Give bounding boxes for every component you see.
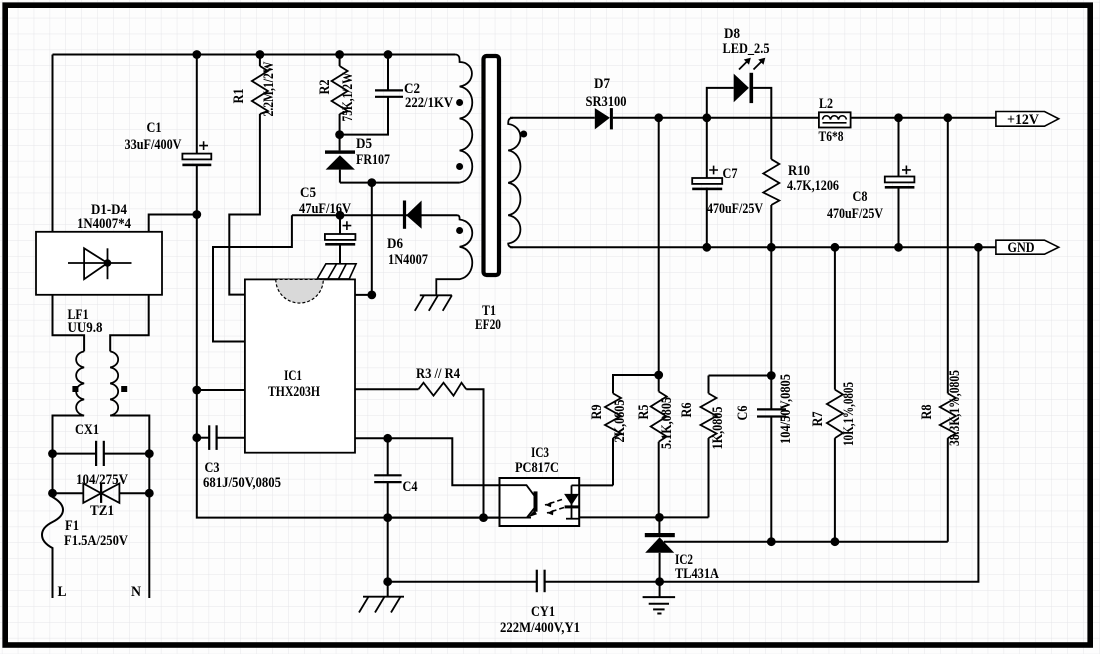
svg-text:UU9.8: UU9.8 xyxy=(68,320,103,336)
svg-text:LED_2.5: LED_2.5 xyxy=(723,41,770,57)
svg-text:R2: R2 xyxy=(317,80,333,95)
svg-text:4.7K,1206: 4.7K,1206 xyxy=(787,178,839,194)
svg-text:PC817C: PC817C xyxy=(515,460,559,476)
svg-text:CX1: CX1 xyxy=(75,422,99,438)
svg-text:1N4007*4: 1N4007*4 xyxy=(77,216,131,232)
svg-text:2.2M,1/2W: 2.2M,1/2W xyxy=(261,61,277,116)
svg-text:1N4007: 1N4007 xyxy=(388,252,428,268)
svg-text:33uF/400V: 33uF/400V xyxy=(125,137,182,153)
svg-text:FR107: FR107 xyxy=(356,152,390,168)
svg-text:+12V: +12V xyxy=(1007,112,1040,128)
svg-text:C5: C5 xyxy=(300,185,316,201)
svg-text:THX203H: THX203H xyxy=(268,384,321,400)
svg-text:SR3100: SR3100 xyxy=(586,94,627,110)
svg-text:GND: GND xyxy=(1008,240,1035,256)
svg-text:470uF/25V: 470uF/25V xyxy=(707,201,763,217)
svg-text:1K,0805: 1K,0805 xyxy=(710,407,726,450)
svg-text:C6: C6 xyxy=(735,406,751,421)
svg-text:R10: R10 xyxy=(788,163,810,179)
svg-text:F1: F1 xyxy=(65,518,79,534)
svg-text:C3: C3 xyxy=(205,460,220,476)
svg-text:D6: D6 xyxy=(387,236,403,252)
svg-text:R5: R5 xyxy=(636,405,652,420)
svg-text:D7: D7 xyxy=(594,76,610,92)
svg-text:F1.5A/250V: F1.5A/250V xyxy=(64,533,128,549)
svg-text:R8: R8 xyxy=(919,405,935,420)
svg-text:104/50V,0805: 104/50V,0805 xyxy=(778,374,794,444)
svg-text:47uF/16V: 47uF/16V xyxy=(299,201,351,217)
svg-text:IC3: IC3 xyxy=(531,445,549,461)
svg-text:CY1: CY1 xyxy=(531,604,555,620)
svg-text:75K,1/2W: 75K,1/2W xyxy=(340,72,356,121)
svg-text:R6: R6 xyxy=(679,403,695,418)
svg-text:38.3K,1%,0805: 38.3K,1%,0805 xyxy=(947,370,963,446)
svg-text:C1: C1 xyxy=(147,120,162,136)
svg-text:104/275V: 104/275V xyxy=(76,472,128,488)
svg-text:EF20: EF20 xyxy=(475,317,501,333)
svg-text:C7: C7 xyxy=(723,166,738,182)
svg-text:R9: R9 xyxy=(589,405,605,420)
svg-text:TL431A: TL431A xyxy=(675,566,719,582)
svg-text:TZ1: TZ1 xyxy=(90,503,114,519)
svg-text:470uF/25V: 470uF/25V xyxy=(827,206,883,222)
svg-text:R7: R7 xyxy=(810,412,826,427)
svg-text:681J/50V,0805: 681J/50V,0805 xyxy=(203,475,281,491)
svg-text:222/1KV: 222/1KV xyxy=(405,95,453,111)
svg-text:T6*8: T6*8 xyxy=(819,129,844,145)
svg-text:L: L xyxy=(58,584,67,600)
svg-text:D8: D8 xyxy=(724,26,740,42)
svg-text:2K,0805: 2K,0805 xyxy=(612,400,628,443)
svg-text:10K,1%,0805: 10K,1%,0805 xyxy=(841,382,857,446)
svg-text:222M/400V,Y1: 222M/400V,Y1 xyxy=(500,620,580,636)
svg-text:R1: R1 xyxy=(231,89,247,104)
svg-text:D5: D5 xyxy=(356,136,372,152)
svg-text:L2: L2 xyxy=(819,96,833,112)
svg-text:R3 // R4: R3 // R4 xyxy=(416,366,460,382)
svg-text:C4: C4 xyxy=(403,479,418,495)
svg-text:5.1K,0805: 5.1K,0805 xyxy=(659,397,675,449)
svg-text:C8: C8 xyxy=(853,189,868,205)
svg-text:IC1: IC1 xyxy=(284,368,302,384)
svg-text:N: N xyxy=(131,584,141,600)
